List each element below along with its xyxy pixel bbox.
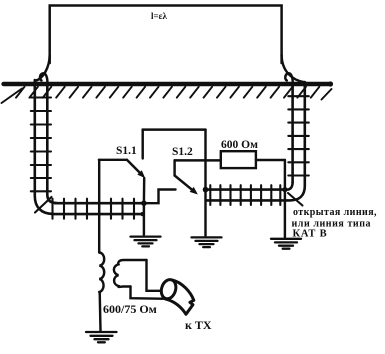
ground plane end dot bbox=[328, 81, 333, 86]
switch S1.2 common vertical from top wire bbox=[204, 130, 206, 190]
wire junction down to ground G1 bbox=[143, 203, 145, 235]
ground G4 (below transformer) bbox=[86, 332, 117, 342]
svg-text:КАТ В: КАТ В bbox=[293, 229, 328, 240]
feeder ladder right vertical: inner rail bbox=[291, 84, 294, 182]
wire S1.1 left pole down to transformer bbox=[98, 160, 100, 253]
switch S1.2 pivot stub bbox=[173, 160, 175, 175]
wire junction down to ground G2 bbox=[204, 190, 206, 236]
bottom-left ladder rungs bbox=[53, 199, 135, 219]
cable horn body bbox=[166, 280, 194, 314]
switch S1.1 fixed contact stub from top wire bbox=[141, 130, 143, 159]
wire secondary top lead down-right to plug bbox=[147, 260, 161, 291]
node: resistor leg crosses ladder top rail bbox=[282, 187, 287, 192]
bottom-right ladder rungs bbox=[210, 185, 280, 205]
feeder ladder left vertical: inner rail bbox=[47, 84, 56, 203]
feeder ladder right vertical: outer rail bbox=[303, 82, 306, 186]
wire step from junction to S1.2 throw bbox=[144, 190, 176, 204]
right corner diagonal rung bbox=[288, 193, 303, 206]
right down-lead curve into feeder bbox=[282, 55, 305, 82]
transformer T1 secondary winding with leads bbox=[114, 260, 147, 287]
resistor R 600 Ohm body bbox=[221, 151, 256, 168]
node: junction S1.2 leg and right ladder bbox=[203, 187, 209, 193]
wire resistor right bbox=[256, 159, 285, 161]
ground hatching bbox=[2, 87, 332, 103]
feeder ladder left vertical: outer rail bbox=[35, 80, 53, 214]
node: bottom rail end blob bbox=[140, 212, 144, 216]
svg-text:открытая линия,: открытая линия, bbox=[293, 207, 377, 218]
left ladder rungs bbox=[31, 98, 51, 192]
switch S1.1 left pole wire bbox=[99, 159, 127, 161]
inner rail top hook bbox=[40, 73, 48, 87]
inner rail top hook right bbox=[285, 73, 293, 87]
cable end plug ellipse bbox=[159, 278, 178, 301]
bottom-left ladder: top rail bbox=[55, 202, 144, 205]
bottom-right ladder: top rail bbox=[206, 182, 293, 190]
ground G1 (below S1.1) bbox=[131, 237, 161, 247]
wire primary down to ground G4 bbox=[98, 292, 101, 331]
bottom-right ladder: bottom rail bbox=[206, 186, 305, 200]
switch S1.2 blade bbox=[175, 176, 196, 193]
switch S1.2 blade arrowhead bbox=[191, 188, 196, 193]
top link wire between switches bbox=[143, 128, 206, 130]
left down-lead curve into feeder bbox=[35, 55, 50, 81]
right ladder rungs bbox=[288, 96, 309, 175]
wire blade tip to junction bbox=[143, 178, 146, 203]
node: junction of ladder and switch leg bbox=[141, 200, 147, 206]
svg-text:600 Ом: 600 Ом bbox=[221, 139, 258, 151]
wire secondary bottom lead to cable bbox=[131, 287, 169, 299]
ground G2 (below S1.2) bbox=[192, 237, 222, 247]
svg-text:S1.1: S1.1 bbox=[116, 145, 137, 157]
left corner diagonal rung bbox=[35, 197, 52, 213]
antenna top section rectangle bbox=[50, 6, 282, 64]
transformer T1 primary winding bbox=[99, 253, 104, 293]
svg-text:600/75 Ом: 600/75 Ом bbox=[103, 302, 157, 316]
switch S1.2 pole wire to resistor bbox=[175, 159, 221, 161]
svg-text:к ТХ: к ТХ bbox=[185, 318, 212, 332]
svg-text:S1.2: S1.2 bbox=[172, 146, 193, 158]
bottom-left ladder: bottom rail bbox=[52, 213, 142, 216]
ground plane thick line bbox=[4, 82, 331, 86]
svg-text:l=ελ: l=ελ bbox=[151, 11, 167, 21]
ground G3 (right) bbox=[271, 239, 301, 249]
switch S1.1 blade bbox=[127, 160, 143, 176]
switch S1.1 blade arrowhead bbox=[139, 172, 144, 177]
wire resistor right leg down to ground G3 bbox=[284, 160, 286, 237]
